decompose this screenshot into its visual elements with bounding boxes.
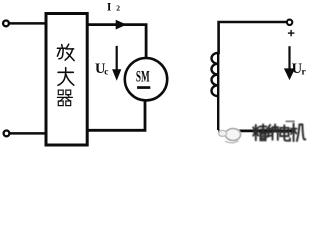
wire input bottom to amplifier <box>9 132 45 135</box>
watermark logo blob <box>219 126 241 143</box>
servomotor SM <box>125 58 167 100</box>
wire input top to amplifier <box>9 22 46 25</box>
current arrow I2 on top wire <box>116 20 127 30</box>
svg-text:I: I <box>107 1 112 13</box>
watermark 精 <box>253 124 267 140</box>
wire amplifier output top to motor <box>88 25 147 58</box>
output terminal (top-right) <box>287 20 292 25</box>
plus polarity sign <box>288 30 295 36</box>
watermark 机 <box>291 124 306 142</box>
inductor coil L1 <box>212 52 219 130</box>
voltage arrow Uc <box>116 46 118 71</box>
wire coil top to terminal <box>219 22 287 54</box>
wire coil bottom to output terminal <box>218 129 292 132</box>
voltage arrow Ur <box>288 46 290 69</box>
wire motor bottom back to amplifier <box>88 100 145 130</box>
watermark 纳 <box>267 124 278 139</box>
svg-text:SM: SM <box>136 69 150 86</box>
amplifier box U1 <box>46 14 87 146</box>
label 大 (da) <box>58 68 74 86</box>
label 放 (fang) <box>57 44 74 60</box>
label 器 (qi) <box>57 90 72 106</box>
watermark 电 <box>280 125 290 140</box>
svg-text:c: c <box>104 68 108 78</box>
svg-text:2: 2 <box>116 4 120 13</box>
minus polarity sign (gray) <box>285 120 295 122</box>
input terminal (top-left) <box>3 21 9 27</box>
input terminal (bottom-left) <box>4 131 10 137</box>
motor minus bar <box>137 86 150 89</box>
